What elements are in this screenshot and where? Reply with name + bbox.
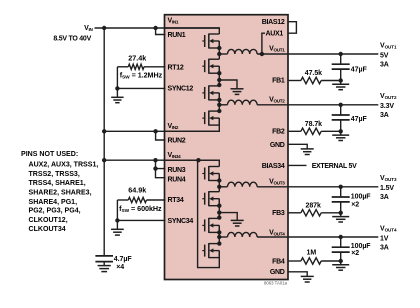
junction Q7 bottom bbox=[217, 230, 221, 234]
wire Q6 source to ground bus bbox=[218, 199, 220, 219]
svg-text:287k: 287k bbox=[306, 203, 322, 210]
wire VOUT4 output bbox=[288, 236, 378, 238]
resistor RT34 64.9k bbox=[117, 197, 165, 202]
svg-text:5V: 5V bbox=[380, 52, 389, 59]
wire L2 to VOUT2 pin bbox=[257, 104, 288, 106]
inductor L3 bbox=[219, 182, 257, 187]
IC U1 body (quad buck regulator) bbox=[165, 15, 289, 280]
pin label VOUT3 bbox=[269, 179, 285, 186]
pin label RT12 bbox=[168, 64, 184, 71]
wire SYNC34 to ground bbox=[117, 219, 165, 221]
svg-text:VIN34: VIN34 bbox=[168, 152, 182, 159]
label fSW = 600kHz bbox=[119, 204, 162, 214]
ground output ch2 bbox=[332, 131, 349, 140]
svg-text:VIN: VIN bbox=[84, 25, 93, 32]
pin label SYNC12 bbox=[168, 85, 194, 92]
ground internal (ch12) bbox=[231, 89, 244, 95]
junction COUT1 top bbox=[339, 52, 343, 56]
pin label RUN3 bbox=[168, 167, 186, 174]
svg-text:SHARE4, PG1,: SHARE4, PG1, bbox=[29, 199, 78, 206]
transistor Q7 (ch4 bottom switch) bbox=[202, 218, 219, 233]
svg-text:RT34: RT34 bbox=[168, 197, 184, 204]
wire L4 to VOUT4 pin bbox=[257, 236, 288, 238]
value label 47.5k bbox=[305, 70, 322, 77]
svg-text:PG2, PG3, PG4,: PG2, PG3, PG4, bbox=[29, 208, 81, 215]
pin label RUN2 bbox=[168, 138, 186, 145]
svg-text:BIAS34: BIAS34 bbox=[262, 163, 285, 170]
svg-text:AUX1: AUX1 bbox=[266, 31, 284, 38]
label x2 (ch4) bbox=[351, 250, 359, 257]
label fSW = 1.2MHz bbox=[120, 71, 163, 81]
inductor L4 bbox=[219, 232, 257, 237]
wire Q8 return to VIN34 bbox=[198, 160, 220, 267]
junction SW1 node bbox=[217, 52, 221, 56]
svg-text:78.7k: 78.7k bbox=[305, 121, 322, 128]
transistor Q6 (ch3 bottom switch) bbox=[202, 191, 219, 206]
label x4 bbox=[116, 264, 124, 271]
svg-text:64.9k: 64.9k bbox=[128, 186, 146, 195]
ground output ch3 bbox=[332, 213, 349, 222]
svg-text:VOUT3: VOUT3 bbox=[380, 175, 397, 182]
junction FB3 ground node bbox=[339, 211, 343, 215]
svg-text:100µF: 100µF bbox=[351, 243, 372, 250]
junction VIN bus bbox=[102, 26, 106, 30]
value label 100µF (ch4) bbox=[351, 243, 372, 250]
junction FB4 ground node bbox=[339, 259, 343, 263]
net label VOUT4 bbox=[380, 225, 397, 232]
net label VIN bbox=[84, 25, 93, 32]
svg-text:4.7µF: 4.7µF bbox=[114, 256, 133, 263]
svg-text:47µF: 47µF bbox=[351, 67, 368, 74]
value label 1.5V (ch3) bbox=[380, 185, 394, 192]
svg-text:47µF: 47µF bbox=[351, 116, 368, 123]
junction Q8 top stub bbox=[217, 241, 221, 245]
pin label VOUT4 bbox=[269, 230, 285, 237]
svg-text:VOUT4: VOUT4 bbox=[380, 225, 397, 232]
svg-text:VOUT2: VOUT2 bbox=[380, 93, 397, 100]
svg-text:SYNC34: SYNC34 bbox=[168, 218, 194, 225]
junction SYNC34 ground bbox=[115, 218, 119, 222]
svg-text:27.4k: 27.4k bbox=[128, 54, 146, 63]
pin label FB2 bbox=[272, 129, 285, 136]
wire RUN1 drop bbox=[156, 28, 166, 35]
ground output ch4 bbox=[332, 261, 349, 270]
svg-text:RUN1: RUN1 bbox=[168, 32, 186, 39]
junction FB1 ground node bbox=[339, 78, 343, 82]
value label 1M bbox=[306, 250, 316, 257]
junction SW2 node bbox=[217, 103, 221, 107]
wire VOUT3 output bbox=[288, 186, 378, 188]
svg-text:FB1: FB1 bbox=[272, 78, 285, 85]
capacitor COUT2 47µF bbox=[332, 105, 350, 132]
junction RUN1 tap bbox=[153, 26, 157, 30]
svg-text:1M: 1M bbox=[306, 250, 316, 257]
svg-text:VIN2: VIN2 bbox=[168, 123, 179, 130]
svg-text:RUN3: RUN3 bbox=[168, 167, 186, 174]
svg-text:RUN4: RUN4 bbox=[168, 177, 186, 184]
svg-text:3A: 3A bbox=[380, 112, 389, 119]
value label 78.7k bbox=[305, 121, 322, 128]
capacitor COUT1 47µF bbox=[332, 54, 350, 81]
svg-text:GND: GND bbox=[270, 269, 285, 276]
wire L1 to VOUT1 pin bbox=[257, 53, 288, 55]
value label 287k bbox=[306, 203, 322, 210]
net label VOUT2 bbox=[380, 93, 397, 100]
wire VIN2 branch bbox=[104, 130, 219, 132]
svg-text:×2: ×2 bbox=[351, 202, 359, 209]
pin label AUX1 bbox=[266, 31, 284, 38]
pin label GND (ch12) bbox=[270, 142, 285, 149]
wire L3 to VOUT3 pin bbox=[257, 186, 288, 188]
value label 3.3V (ch2) bbox=[380, 103, 394, 110]
capacitor COUT3 100µF bbox=[332, 187, 350, 213]
svg-text:AUX2, AUX3, TRSS1,: AUX2, AUX3, TRSS1, bbox=[29, 162, 99, 169]
svg-text:8.5V TO 40V: 8.5V TO 40V bbox=[53, 35, 91, 42]
junction internal ground tap 34 bbox=[217, 210, 221, 214]
svg-text:PINS NOT USED:: PINS NOT USED: bbox=[21, 151, 78, 158]
pin label FB4 bbox=[272, 258, 285, 265]
inductor L1 bbox=[219, 49, 257, 54]
svg-text:RUN2: RUN2 bbox=[168, 138, 186, 145]
transistor Q4 (ch2 top switch) bbox=[202, 111, 219, 126]
svg-text:1.5V: 1.5V bbox=[380, 185, 394, 192]
note PINS NOT USED list bbox=[21, 151, 98, 233]
svg-text:FB4: FB4 bbox=[272, 258, 285, 265]
svg-text:SHARE2, SHARE3,: SHARE2, SHARE3, bbox=[29, 190, 92, 197]
ground for RT12/SYNC12 bbox=[111, 88, 123, 102]
pin label RUN4 bbox=[168, 177, 186, 184]
wire VIN bus vertical bbox=[103, 28, 105, 256]
label x2 (ch3) bbox=[351, 202, 359, 209]
svg-text:FB3: FB3 bbox=[272, 210, 285, 217]
wire RT12 left vertical bbox=[116, 67, 118, 89]
wire RUN3 drop bbox=[156, 160, 166, 168]
inductor L2 bbox=[219, 100, 257, 105]
ground for RT34/SYNC34 bbox=[111, 220, 124, 235]
wire GND pin ch34 bbox=[288, 272, 307, 277]
pin label VIN34 bbox=[168, 152, 182, 159]
svg-text:SYNC12: SYNC12 bbox=[168, 85, 194, 92]
wire SW1 bus bbox=[218, 41, 220, 59]
ground GND pin ch34 bbox=[301, 276, 314, 282]
svg-text:8063 TA01a: 8063 TA01a bbox=[264, 280, 288, 285]
note figure tag 8063 TA01a bbox=[264, 280, 288, 285]
pin label VOUT2 bbox=[269, 97, 285, 104]
junction VIN34 branch bbox=[102, 158, 106, 162]
wire SYNC12 to ground bbox=[117, 87, 165, 89]
wire VIN1 internal to Q1 drain bbox=[165, 28, 220, 34]
svg-text:RT12: RT12 bbox=[168, 64, 184, 71]
svg-text:GND: GND bbox=[270, 142, 285, 149]
pin label BIAS34 bbox=[262, 163, 285, 170]
wire VIN to VIN1 pin bbox=[95, 27, 220, 29]
junction RUN34 tap bbox=[153, 158, 157, 162]
ground output ch1 bbox=[332, 81, 349, 90]
junction L1 output / AUX1 tap bbox=[260, 52, 264, 56]
pin label FB1 bbox=[272, 78, 285, 85]
ground internal (ch34) bbox=[231, 220, 244, 226]
junction SW4 node bbox=[217, 235, 221, 239]
svg-text:TRSS2, TRSS3,: TRSS2, TRSS3, bbox=[29, 171, 80, 178]
junction VIN2 branch bbox=[102, 129, 106, 133]
pin label BIAS12 bbox=[262, 19, 285, 26]
resistor RFB1 47.5k bbox=[288, 77, 341, 83]
value label 1V (ch4) bbox=[380, 235, 389, 242]
value label 64.9k bbox=[128, 186, 146, 195]
wire SW4 bus bbox=[218, 225, 220, 243]
junction COUT4 top bbox=[339, 235, 343, 239]
pin label RT34 bbox=[168, 197, 184, 204]
junction COUT2 top bbox=[339, 103, 343, 107]
junction RUN2 tap bbox=[153, 129, 157, 133]
wire Q2 source to ground bus bbox=[218, 66, 220, 86]
transistor Q3 (ch2 bottom switch) bbox=[202, 85, 219, 100]
pin label VIN1 bbox=[168, 17, 179, 24]
junction COUT3 top bbox=[339, 185, 343, 189]
pin label SYNC34 bbox=[168, 218, 194, 225]
junction Q2 source bbox=[217, 71, 221, 75]
transistor Q5 (ch3 top switch) bbox=[202, 166, 219, 181]
svg-text:EXTERNAL 5V: EXTERNAL 5V bbox=[312, 163, 357, 170]
svg-text:3.3V: 3.3V bbox=[380, 103, 394, 110]
junction SW3 node bbox=[217, 185, 221, 189]
pin label VOUT1 bbox=[269, 46, 285, 53]
junction VIN34 internal bbox=[196, 158, 200, 162]
junction Q1 source bbox=[217, 46, 221, 50]
wire SW3 bus bbox=[218, 174, 220, 192]
svg-text:BIAS12: BIAS12 bbox=[262, 19, 285, 26]
junction Q7 top stub bbox=[217, 215, 221, 219]
junction Q6 source bbox=[217, 204, 221, 208]
ground GND pin ch12 bbox=[301, 149, 314, 155]
wire VOUT2 output bbox=[288, 104, 378, 106]
label input range 8.5V TO 40V bbox=[53, 35, 91, 42]
value label 100µF (ch3) bbox=[351, 193, 372, 200]
svg-text:100µF: 100µF bbox=[351, 193, 372, 200]
value label 5V (ch1) bbox=[380, 52, 389, 59]
svg-text:3A: 3A bbox=[380, 194, 389, 201]
transistor Q2 (ch1 bottom switch) bbox=[202, 59, 219, 74]
svg-text:VOUT1: VOUT1 bbox=[269, 46, 285, 53]
resistor RFB3 287k bbox=[288, 210, 341, 216]
junction FB2 ground node bbox=[339, 129, 343, 133]
svg-text:×2: ×2 bbox=[351, 250, 359, 257]
wire AUX1 tie to VOUT1 node bbox=[262, 33, 265, 54]
svg-text:CLKOUT12,: CLKOUT12, bbox=[29, 217, 68, 224]
value label 3A (ch2) bbox=[380, 112, 389, 119]
junction Q5 source bbox=[217, 178, 221, 182]
wire Q4 to VIN2 internal bbox=[165, 118, 220, 131]
pin label VIN2 bbox=[168, 123, 179, 130]
wire RUN2 drop bbox=[156, 131, 166, 140]
value label 27.4k bbox=[128, 54, 146, 63]
wire RT34 left vertical bbox=[116, 200, 118, 220]
svg-text:TRSS4, SHARE1,: TRSS4, SHARE1, bbox=[29, 180, 86, 187]
svg-text:3A: 3A bbox=[380, 244, 389, 251]
wire SW2 bus bbox=[218, 93, 220, 111]
junction RUN3 bbox=[153, 166, 157, 170]
capacitor CIN 4.7uF x4 bbox=[95, 256, 113, 262]
wire BIAS34 external bbox=[288, 164, 307, 166]
net label VOUT3 bbox=[380, 175, 397, 182]
svg-text:×4: ×4 bbox=[116, 264, 124, 271]
svg-text:47.5k: 47.5k bbox=[305, 70, 322, 77]
transistor Q1 (ch1 top switch) bbox=[202, 34, 219, 49]
value label 47µF (ch2) bbox=[351, 116, 368, 123]
svg-text:VOUT2: VOUT2 bbox=[269, 97, 285, 104]
value label 3A (ch1) bbox=[380, 61, 389, 68]
junction internal ground tap 12 bbox=[217, 78, 221, 82]
junction Q3 top stub bbox=[217, 83, 221, 87]
svg-text:VOUT3: VOUT3 bbox=[269, 179, 285, 186]
value label 4.7uF bbox=[114, 256, 133, 263]
value label 3A (ch3) bbox=[380, 194, 389, 201]
transistor Q8 (ch4 top switch) bbox=[202, 243, 219, 258]
label EXTERNAL 5V bbox=[312, 163, 357, 170]
svg-text:CLKOUT34: CLKOUT34 bbox=[29, 226, 66, 233]
wire VOUT1 output bbox=[288, 53, 378, 55]
svg-text:3A: 3A bbox=[380, 61, 389, 68]
svg-text:VIN1: VIN1 bbox=[168, 17, 179, 24]
capacitor COUT4 100µF bbox=[332, 237, 350, 261]
wire VIN34 branch bbox=[104, 159, 219, 161]
resistor RFB2 78.7k bbox=[288, 128, 341, 134]
resistor RT12 27.4k bbox=[117, 64, 165, 69]
pin label RUN1 bbox=[168, 32, 186, 39]
wire internal ground tap 34 bbox=[219, 213, 237, 221]
wire RUN4 drop bbox=[156, 169, 166, 178]
svg-text:VOUT4: VOUT4 bbox=[269, 230, 285, 237]
resistor RFB4 1M bbox=[288, 258, 341, 264]
svg-text:1V: 1V bbox=[380, 235, 389, 242]
ground for CIN bbox=[98, 262, 111, 272]
junction Q3 bottom bbox=[217, 98, 221, 102]
net label VOUT1 bbox=[380, 42, 397, 49]
value label 3A (ch4) bbox=[380, 244, 389, 251]
pin label FB3 bbox=[272, 210, 285, 217]
pin label GND (ch34) bbox=[270, 269, 285, 276]
svg-text:VOUT1: VOUT1 bbox=[380, 42, 397, 49]
wire internal ground tap 12 bbox=[219, 80, 237, 89]
junction Q4 top stub bbox=[217, 109, 221, 113]
svg-text:FB2: FB2 bbox=[272, 129, 285, 136]
wire VIN34 internal to Q5 drain bbox=[165, 160, 220, 166]
wire GND pin ch12 bbox=[288, 144, 307, 149]
junction SYNC12 ground bbox=[115, 86, 119, 90]
value label 47µF (ch1) bbox=[351, 67, 368, 74]
wire BIAS12 to AUX1 bracket bbox=[288, 22, 296, 34]
